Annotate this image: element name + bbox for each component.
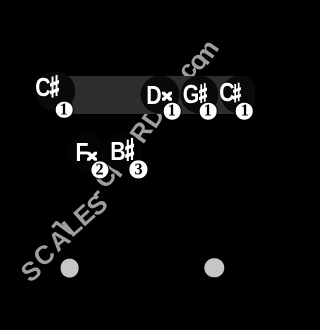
note disc G# — [180, 75, 219, 114]
sharp sign of left C# — [50, 75, 59, 98]
fret marker dot (right) — [205, 258, 224, 277]
watermark letter "o" — [181, 47, 211, 75]
note disc C# (right) — [220, 75, 259, 114]
watermark letter "S" — [16, 255, 46, 286]
watermark letter "S" — [81, 190, 111, 221]
sharp sign of right C# — [233, 82, 241, 103]
watermark letter "O" — [111, 131, 144, 163]
double-sharp sign of Fx — [87, 151, 97, 161]
finger badge 3 (B#) — [129, 160, 148, 179]
watermark letter "-" — [83, 180, 108, 204]
note disc Dx — [141, 75, 180, 114]
watermark caret mark above letter A — [51, 221, 72, 235]
fret marker dot (left) — [60, 259, 79, 278]
finger badge 2 (Fx) — [90, 160, 109, 179]
finger badge 1 (right C#) — [235, 102, 254, 121]
note disc Fx (black on black background) — [67, 133, 106, 172]
watermark letter "R" — [125, 116, 157, 146]
watermark letter "L" — [57, 211, 86, 241]
note letter C (left C#) — [36, 74, 51, 100]
sharp sign of B# — [125, 138, 135, 162]
watermark letter "m" — [188, 35, 223, 69]
watermark letter "C" — [29, 239, 60, 271]
note disc C# (left, on band) — [36, 71, 76, 111]
note letter F — [75, 139, 88, 165]
watermark letter "D" — [137, 102, 169, 132]
watermark letter "." — [157, 83, 183, 103]
double-sharp sign of Dx — [162, 91, 172, 101]
sharp sign of G# — [199, 82, 207, 104]
finger badge 1 (G#) — [199, 102, 218, 121]
finger badge 1 (left C#) — [55, 100, 74, 119]
watermark letter "H" — [101, 150, 133, 181]
note letter B — [110, 138, 125, 164]
note letter D — [146, 82, 161, 108]
watermark letter "S" — [146, 89, 177, 118]
watermark letter "C" — [89, 161, 121, 192]
note disc B# (black on black background) — [104, 132, 143, 171]
watermark letter "c" — [172, 57, 202, 84]
finger badge 1 (Dx) — [163, 102, 182, 121]
note letter C (right C#) — [219, 79, 234, 105]
watermark letter "E" — [68, 200, 98, 231]
fretboard band — [60, 76, 248, 113]
note letter G — [183, 81, 200, 107]
watermark letter "A" — [43, 224, 74, 256]
